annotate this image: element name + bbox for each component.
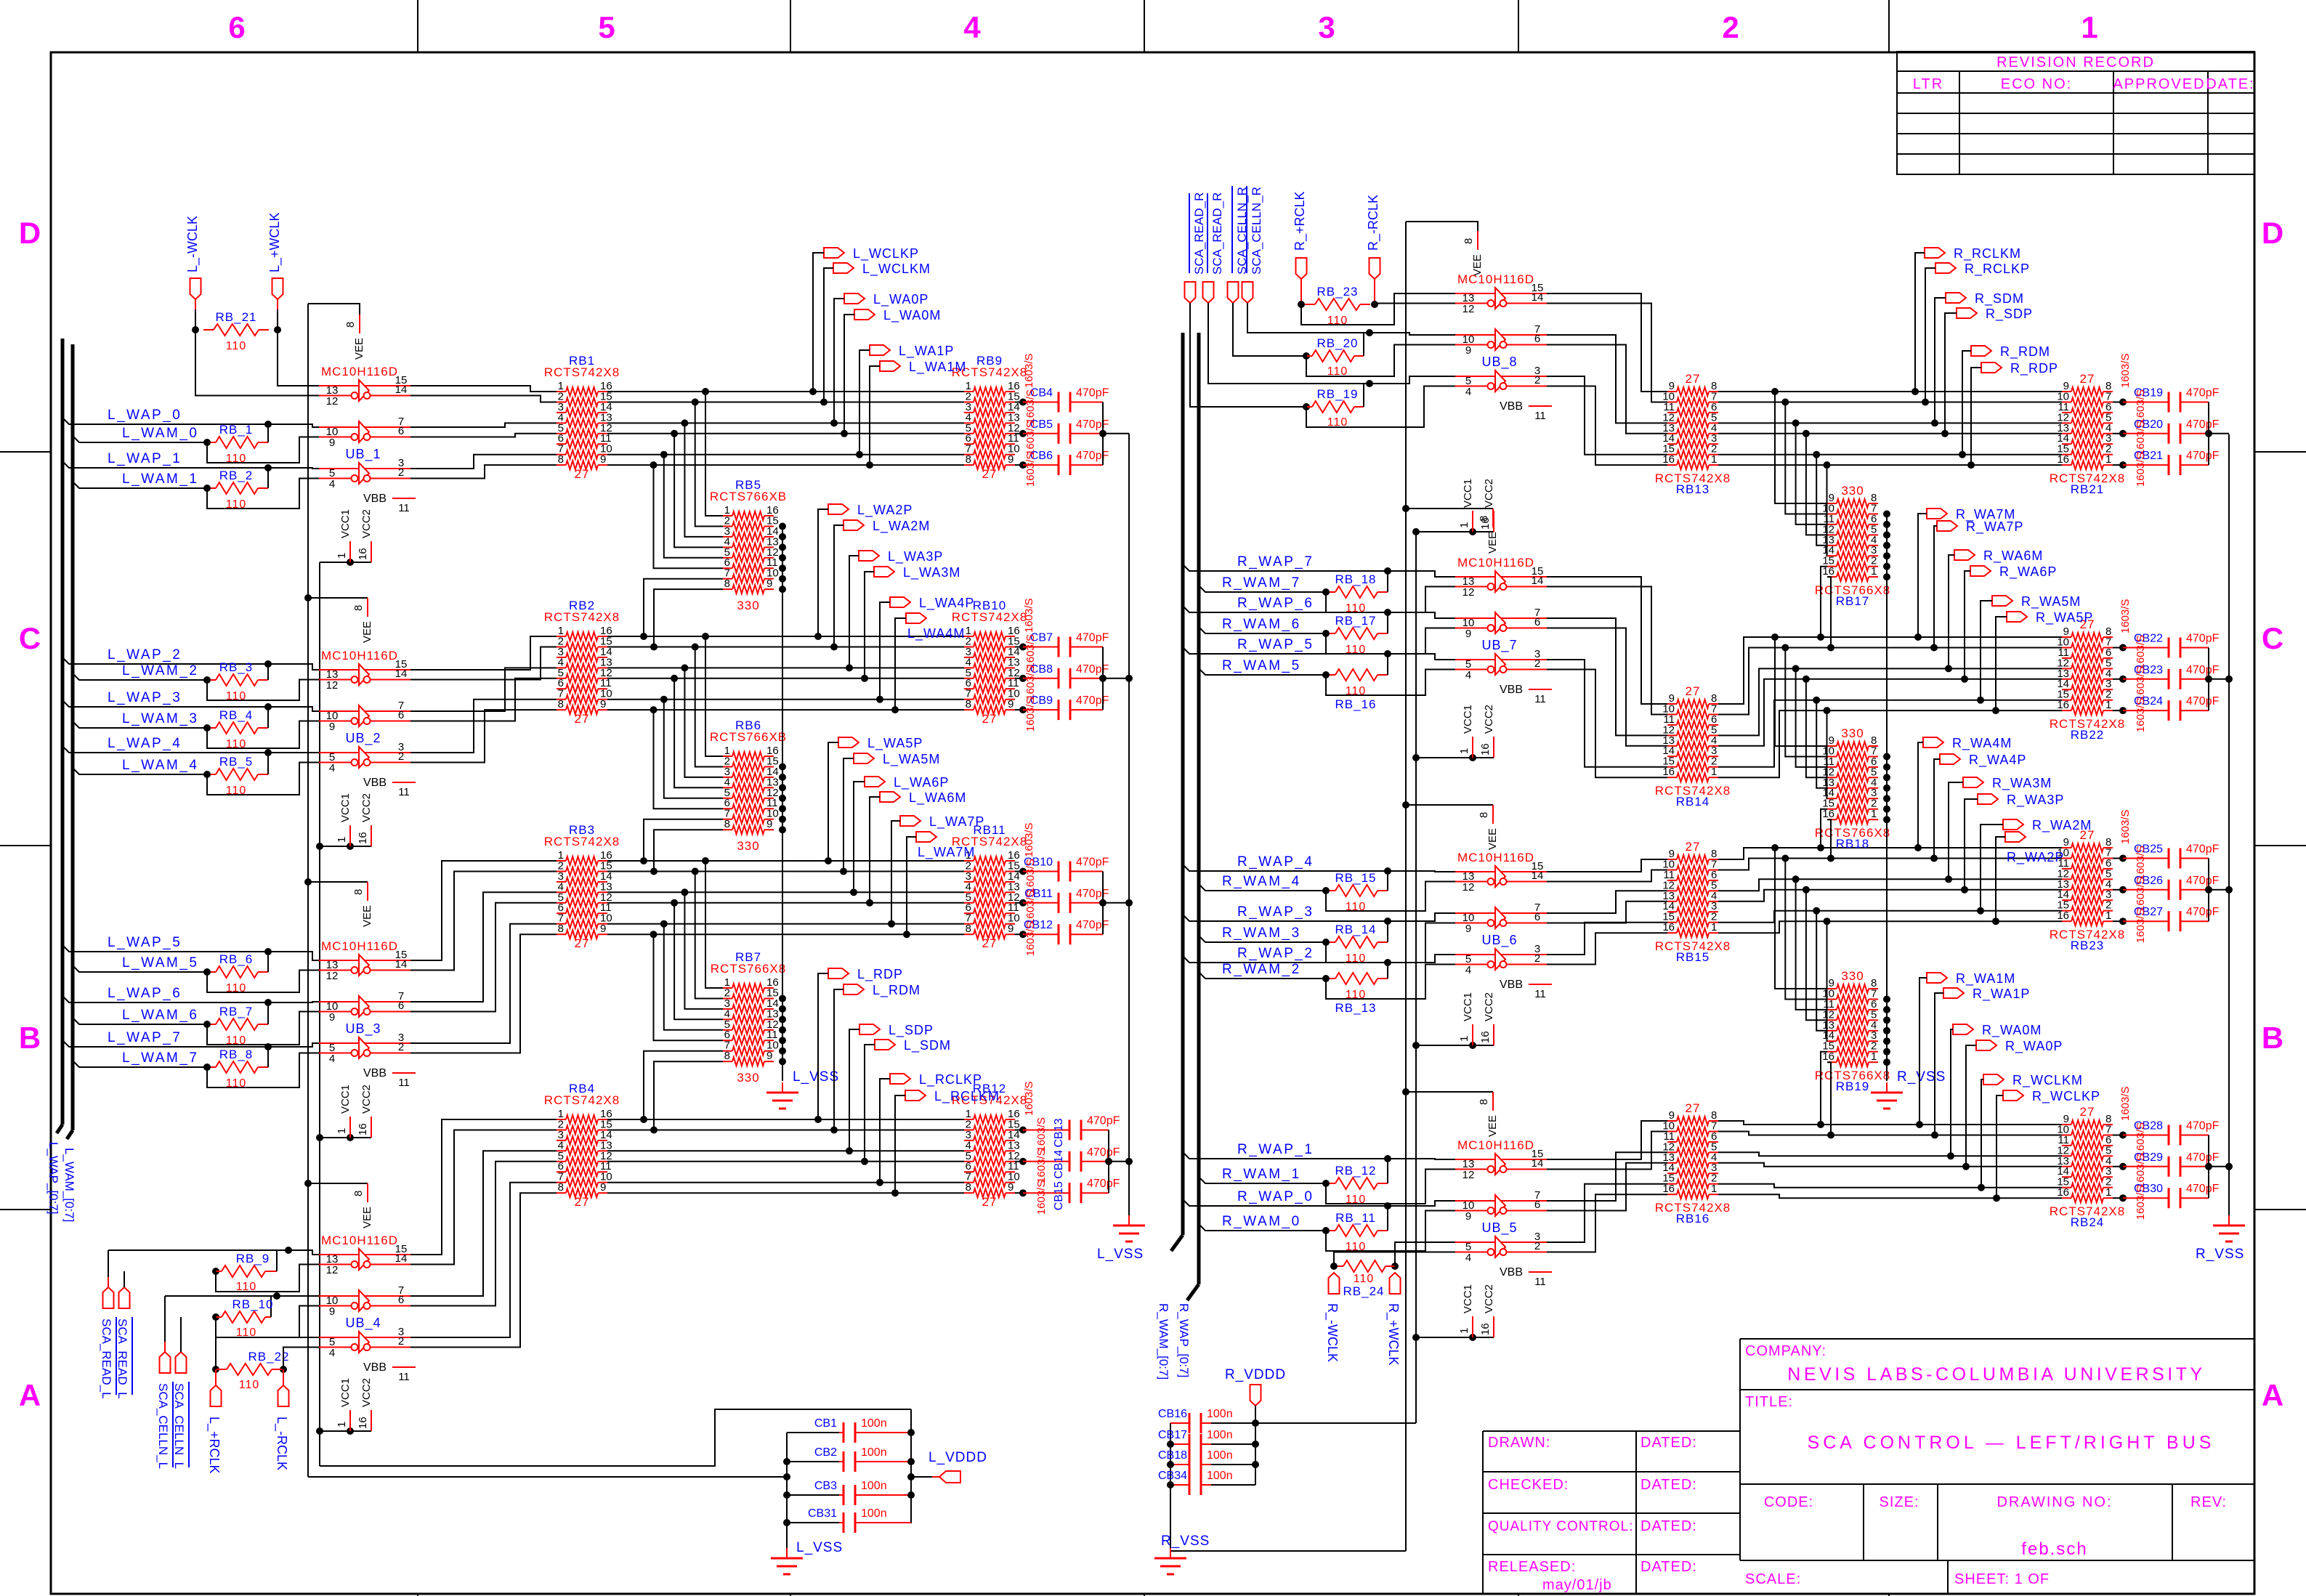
svg-text:VCC1: VCC1 xyxy=(339,793,352,822)
svg-text:14: 14 xyxy=(1532,870,1544,882)
cap group collector group 1 xyxy=(1102,402,1104,466)
capacitor CB13 470pF xyxy=(1015,1130,1023,1131)
wire bundle row 4 group R4 xyxy=(1718,1152,2062,1156)
svg-text:NEVIS LABS-COLUMBIA UNIVERSITY: NEVIS LABS-COLUMBIA UNIVERSITY xyxy=(1787,1364,2205,1385)
svg-text:R_-WCLK: R_-WCLK xyxy=(1324,1303,1340,1362)
svg-text:6: 6 xyxy=(1534,911,1540,923)
wire bundle row 7 group 3 xyxy=(607,923,964,925)
svg-text:R_WAM_3: R_WAM_3 xyxy=(1222,925,1301,941)
svg-text:C: C xyxy=(2262,621,2283,655)
svg-text:9: 9 xyxy=(329,1011,335,1024)
buffer gate UB_7.A xyxy=(1455,576,1547,578)
VEE pin 8 of UB_8 xyxy=(1406,222,1478,231)
wire L_+WCLK to UB_1 pin 13 xyxy=(278,330,319,386)
svg-text:1: 1 xyxy=(1458,522,1470,528)
svg-text:470pF: 470pF xyxy=(2186,1183,2220,1195)
svg-text:VCC1: VCC1 xyxy=(1462,479,1474,508)
svg-text:UB_6: UB_6 xyxy=(1481,933,1517,948)
svg-text:L_WAP_1: L_WAP_1 xyxy=(108,451,182,466)
svg-text:VCC2: VCC2 xyxy=(1483,992,1495,1021)
svg-text:470pF: 470pF xyxy=(1087,1146,1120,1159)
wire 330 networks common rail xyxy=(782,526,783,1081)
resistor network RB6 RCTS766X8 330 xyxy=(723,756,732,757)
svg-text:12: 12 xyxy=(326,679,339,692)
capacitor CB26 470pF xyxy=(2113,889,2123,891)
svg-text:L_WA0P: L_WA0P xyxy=(873,292,929,307)
connector SCA_READ_R b xyxy=(1203,282,1214,303)
svg-text:QUALITY CONTROL:: QUALITY CONTROL: xyxy=(1488,1519,1633,1534)
capacitor CB22 470pF xyxy=(2113,647,2123,649)
VEE pin 8 of UB_5 xyxy=(1402,1088,1409,1095)
resistor network RB4 RCTS742X8 27 xyxy=(557,1119,566,1120)
svg-text:8: 8 xyxy=(352,1191,365,1196)
svg-text:R_WA3M: R_WA3M xyxy=(1992,776,2052,791)
svg-text:470pF: 470pF xyxy=(2186,695,2220,708)
connector SCA_CELLN_L a xyxy=(160,1352,171,1373)
svg-text:A: A xyxy=(2262,1378,2283,1412)
wire RB6 pin 1 to upper bundle xyxy=(705,636,723,756)
wire RB6 pin 4 to upper bundle xyxy=(674,678,723,788)
capacitor CB29 470pF xyxy=(2113,1166,2123,1167)
svg-text:VEE: VEE xyxy=(1486,1115,1499,1137)
svg-text:1: 1 xyxy=(1711,453,1717,466)
svg-text:R_+RCLK: R_+RCLK xyxy=(1292,191,1308,251)
svg-text:R_WA0P: R_WA0P xyxy=(2005,1039,2063,1054)
VCC pins of UB_3 xyxy=(316,1134,323,1141)
cap group collector group R4 xyxy=(2208,1135,2209,1199)
svg-text:R_SDM: R_SDM xyxy=(1975,291,2024,307)
bus R thick lines xyxy=(1181,333,1185,1235)
wire RB17 pin 14 to upper bundle xyxy=(1826,465,1829,556)
svg-text:R_VDDD: R_VDDD xyxy=(1225,1367,1286,1382)
wire R_WAM_0 detour to gate pin xyxy=(1326,1211,1455,1252)
wire R_WAM_3 detour to gate pin xyxy=(1326,923,1455,963)
svg-text:RB15: RB15 xyxy=(1676,950,1710,964)
wire bundle row 2 group R4 xyxy=(1718,1132,2062,1135)
capacitor CB11 470pF xyxy=(1015,902,1023,904)
wire net L_WAM_2 xyxy=(73,673,207,680)
flag connector L_WA1P xyxy=(870,345,890,355)
svg-text:D: D xyxy=(19,216,41,250)
svg-text:4: 4 xyxy=(329,1053,335,1065)
svg-text:6: 6 xyxy=(398,1294,404,1306)
wire bundle row 7 group R2 xyxy=(1718,700,2062,767)
bus L_WAP/L_WAM thick lines xyxy=(61,339,65,1125)
capacitor CB7 470pF xyxy=(1015,647,1023,648)
wire bundle row 4 group 4 xyxy=(607,1150,964,1151)
capacitor CB21 470pF xyxy=(2113,464,2123,466)
rail VEE left column xyxy=(307,304,309,1477)
svg-text:R_WAM_0: R_WAM_0 xyxy=(1222,1214,1301,1229)
border zone ticks bottom xyxy=(417,1594,418,1596)
svg-text:8: 8 xyxy=(1463,238,1475,244)
svg-text:CODE:: CODE: xyxy=(1764,1494,1813,1510)
VCC pins of UB_6 xyxy=(1412,1042,1420,1049)
svg-text:RCTS742X8: RCTS742X8 xyxy=(544,1093,620,1107)
svg-text:470pF: 470pF xyxy=(1076,919,1109,931)
terminal L_VDDD xyxy=(911,1476,932,1478)
svg-text:16: 16 xyxy=(2057,910,2069,922)
VCC pins of UB_2 xyxy=(316,843,323,850)
svg-text:L_RDM: L_RDM xyxy=(873,983,921,998)
svg-text:R_WAP_2: R_WAP_2 xyxy=(1237,946,1314,961)
svg-text:1603/S: 1603/S xyxy=(2135,1186,2147,1220)
wire bundle row 5 group 4 xyxy=(607,1161,964,1162)
capacitor CB2 100n xyxy=(787,1461,839,1462)
svg-text:RCTS742X8: RCTS742X8 xyxy=(544,835,620,848)
svg-text:RB22: RB22 xyxy=(2071,728,2105,742)
flag connector L_SDM xyxy=(875,1040,895,1050)
svg-text:CB14: CB14 xyxy=(1053,1150,1065,1179)
svg-text:VBB: VBB xyxy=(1500,1266,1523,1279)
ground L_VSS at collector xyxy=(1128,1215,1130,1226)
svg-text:11: 11 xyxy=(398,786,410,798)
svg-text:12: 12 xyxy=(1463,881,1475,894)
svg-text:470pF: 470pF xyxy=(2186,843,2220,856)
svg-text:A: A xyxy=(19,1378,41,1412)
svg-text:2: 2 xyxy=(1534,1240,1540,1252)
svg-text:R_WA2M: R_WA2M xyxy=(2032,818,2092,833)
wire L_-WCLK to UB_1 pin 12 xyxy=(195,330,319,396)
flag connector L_WA4M xyxy=(906,613,926,623)
connector R_+WCLK xyxy=(1390,1273,1401,1294)
svg-text:1: 1 xyxy=(2105,699,2111,711)
svg-text:B: B xyxy=(19,1021,41,1055)
svg-text:DATED:: DATED: xyxy=(1641,1477,1697,1493)
wire RB17 pin 13 to upper bundle xyxy=(1816,455,1827,546)
resistor network RB22 RCTS742X8 27 xyxy=(2062,636,2071,638)
svg-text:1: 1 xyxy=(1458,1036,1470,1042)
svg-text:R_WA7P: R_WA7P xyxy=(1966,519,2023,535)
svg-text:L_WAM_3: L_WAM_3 xyxy=(122,711,199,726)
resistor network RB2 RCTS742X8 27 xyxy=(557,636,566,637)
svg-text:470pF: 470pF xyxy=(1076,694,1109,707)
wire SCA_READ_R b to UB_8 pin 5 xyxy=(1208,303,1455,384)
svg-text:COMPANY:: COMPANY: xyxy=(1745,1343,1826,1359)
svg-text:4: 4 xyxy=(1465,1252,1471,1264)
svg-text:R_WA4P: R_WA4P xyxy=(1969,753,2026,768)
svg-text:L_WA5P: L_WA5P xyxy=(867,736,923,751)
svg-text:VCC2: VCC2 xyxy=(360,509,373,538)
resistor RB_4 110 termination xyxy=(203,724,211,732)
wire RB6 pin 7 to lower bundle xyxy=(644,819,723,861)
svg-text:ECO NO:: ECO NO: xyxy=(2001,76,2072,92)
svg-text:SCA_READ_L: SCA_READ_L xyxy=(116,1318,129,1399)
svg-text:11: 11 xyxy=(398,1371,410,1383)
flag connector R_RDM xyxy=(1971,346,1991,356)
svg-text:MC10H116D: MC10H116D xyxy=(1457,272,1534,286)
svg-text:SCALE:: SCALE: xyxy=(1745,1571,1801,1587)
svg-text:100n: 100n xyxy=(1207,1470,1233,1482)
svg-text:SCA_CELLN_L: SCA_CELLN_L xyxy=(172,1383,186,1469)
connector SCA_READ_L a xyxy=(103,1287,114,1308)
svg-text:UB_2: UB_2 xyxy=(345,731,381,746)
svg-text:6: 6 xyxy=(398,425,404,437)
svg-text:470pF: 470pF xyxy=(1076,387,1109,400)
wire bundle row 7 group 1 xyxy=(607,454,964,455)
flag connector R_WA0P xyxy=(1976,1040,1996,1050)
svg-text:110: 110 xyxy=(226,340,247,352)
capacitor CB12 470pF xyxy=(1015,933,1023,935)
svg-text:CB3: CB3 xyxy=(814,1480,837,1492)
svg-text:16: 16 xyxy=(1479,1031,1492,1043)
svg-text:27: 27 xyxy=(575,1195,590,1209)
svg-text:6: 6 xyxy=(398,709,404,721)
wire R_+RCLK to UB_8 pin 13 xyxy=(1301,293,1455,325)
wire bundle row 4 group R2 xyxy=(1718,668,2062,735)
svg-text:1603/S: 1603/S xyxy=(2119,1086,2132,1121)
wire RB5 pin 3 to upper bundle xyxy=(684,423,723,537)
wire RB6 pin 5 to upper bundle xyxy=(664,700,723,798)
connector R_-WCLK xyxy=(1329,1273,1340,1294)
wire net L_WAP_4 xyxy=(62,746,305,753)
svg-text:VCC2: VCC2 xyxy=(360,793,373,822)
flag connector R_WA6P xyxy=(1970,566,1991,576)
svg-text:MC10H116D: MC10H116D xyxy=(1457,851,1534,864)
svg-text:8: 8 xyxy=(1478,516,1490,522)
capacitor CB14 470pF xyxy=(1015,1161,1023,1162)
connector L_+WCLK xyxy=(272,278,283,299)
wire bundle row 2 group R1 xyxy=(1718,402,2062,403)
svg-text:4: 4 xyxy=(329,478,335,490)
svg-text:R_WA0M: R_WA0M xyxy=(1982,1023,2042,1038)
svg-text:D: D xyxy=(2262,216,2283,250)
svg-text:100n: 100n xyxy=(1207,1408,1233,1420)
svg-text:SCA_CELLN_L: SCA_CELLN_L xyxy=(156,1383,170,1469)
svg-text:RB_5: RB_5 xyxy=(219,755,254,769)
VEE pin 8 of UB_6 xyxy=(1402,801,1409,809)
wire bundle row 4 group 3 xyxy=(607,891,964,893)
wire bundle row 5 group R1 xyxy=(1718,433,2062,434)
svg-text:UB_7: UB_7 xyxy=(1481,638,1517,653)
capacitor CB31 100n xyxy=(787,1522,839,1523)
svg-text:CB1: CB1 xyxy=(814,1417,837,1430)
wire R_WAP_6 jog to gate xyxy=(1388,612,1455,618)
svg-text:L_RDP: L_RDP xyxy=(857,967,903,982)
svg-text:4: 4 xyxy=(329,1347,335,1359)
svg-text:11: 11 xyxy=(1534,693,1546,705)
svg-text:9: 9 xyxy=(766,818,772,830)
wire RB19 pin 11 to upper bundle xyxy=(1796,879,1827,1010)
svg-text:9: 9 xyxy=(1465,344,1471,357)
svg-text:2: 2 xyxy=(1534,374,1540,386)
svg-text:RCTS766X8: RCTS766X8 xyxy=(711,962,786,976)
svg-text:9: 9 xyxy=(329,721,335,733)
ground L_VSS cap bank xyxy=(786,1548,788,1558)
wire bundle row 1 group 4 xyxy=(607,1119,964,1120)
svg-text:16: 16 xyxy=(357,548,369,560)
svg-text:1603/S: 1603/S xyxy=(1023,822,1035,857)
wire R_WAP_4 jog to gate xyxy=(1388,871,1455,872)
wire RB19 pin 9 to upper bundle xyxy=(1775,848,1827,989)
svg-text:1603/S: 1603/S xyxy=(1023,598,1035,633)
svg-text:1: 1 xyxy=(1711,1183,1717,1195)
svg-text:CB18: CB18 xyxy=(1158,1449,1187,1462)
VEE pin 8 of UB_4 xyxy=(304,1180,312,1187)
svg-text:9: 9 xyxy=(1465,1210,1471,1223)
svg-text:REV:: REV: xyxy=(2190,1494,2227,1510)
svg-text:4: 4 xyxy=(329,762,335,774)
flag connector L_SDP xyxy=(859,1024,880,1034)
buffer gate UB_8.A xyxy=(1455,293,1547,294)
svg-text:1603/S: 1603/S xyxy=(1024,453,1037,487)
svg-text:470pF: 470pF xyxy=(2186,1151,2220,1164)
wire bundle row 2 group 3 xyxy=(607,871,964,872)
svg-text:VCC2: VCC2 xyxy=(1483,705,1495,734)
wire bundle row 5 group R3 xyxy=(1718,890,2062,902)
wire RB18 pin 12 to upper bundle xyxy=(1806,679,1827,778)
svg-text:L_WCLKP: L_WCLKP xyxy=(853,246,919,262)
svg-text:VCC1: VCC1 xyxy=(1462,1284,1474,1313)
wire bundle row 5 group R2 xyxy=(1718,679,2062,746)
svg-text:L_WA7M: L_WA7M xyxy=(918,845,975,860)
svg-text:1: 1 xyxy=(336,1128,348,1134)
flag connector R_WA0M xyxy=(1953,1024,1973,1034)
revision record table xyxy=(1897,52,2254,174)
flag connector L_WA2M xyxy=(843,520,864,530)
svg-text:UB_4: UB_4 xyxy=(345,1316,381,1331)
svg-text:16: 16 xyxy=(1662,1183,1675,1195)
wire net R_WAM_1 xyxy=(1199,1177,1334,1183)
flag connector L_WA7M xyxy=(916,832,936,842)
svg-text:470pF: 470pF xyxy=(2186,1120,2220,1133)
resistor network RB7 RCTS766X8 330 xyxy=(723,987,732,989)
svg-text:L_VSS: L_VSS xyxy=(1097,1247,1144,1262)
resistor RB_8 110 termination xyxy=(203,1064,211,1071)
svg-text:8: 8 xyxy=(724,818,730,830)
svg-text:1603/S: 1603/S xyxy=(2119,353,2132,388)
svg-text:27: 27 xyxy=(575,936,590,950)
svg-text:R_WAP_7: R_WAP_7 xyxy=(1237,554,1314,570)
wire net R_WAP_2 xyxy=(1183,956,1396,963)
svg-text:100n: 100n xyxy=(1207,1429,1233,1441)
svg-text:RB_18: RB_18 xyxy=(1335,572,1377,586)
svg-text:3: 3 xyxy=(1318,10,1335,44)
svg-text:R_RDM: R_RDM xyxy=(2000,344,2050,360)
wire RB17 pin 10 to upper bundle xyxy=(1785,402,1827,514)
wire net L_WAM_7 xyxy=(73,1061,207,1067)
wire L_+RCLK to UB_4 pin 5 xyxy=(216,1337,319,1369)
svg-text:R_WA5P: R_WA5P xyxy=(2036,610,2093,625)
resistor RB_14 110 termination xyxy=(1322,939,1330,946)
wire RB17 pin 15 to lower bundle xyxy=(1821,567,1827,637)
svg-text:LTR: LTR xyxy=(1913,76,1943,92)
svg-text:RB23: RB23 xyxy=(2071,939,2105,952)
border zone ticks top xyxy=(417,0,418,52)
svg-text:9: 9 xyxy=(600,923,606,935)
svg-text:VCC1: VCC1 xyxy=(339,509,352,538)
wire net L_WAM_3 xyxy=(73,721,207,728)
wire net L_WAM_0 xyxy=(73,436,207,442)
svg-text:VCC2: VCC2 xyxy=(1483,1284,1495,1313)
svg-text:MC10H116D: MC10H116D xyxy=(1457,556,1534,570)
svg-text:L_WAM_4: L_WAM_4 xyxy=(122,758,199,773)
svg-text:R_WAP_5: R_WAP_5 xyxy=(1237,637,1314,652)
wire RB7 pin 5 to upper bundle xyxy=(664,924,723,1030)
wire bundle row 5 group R4 xyxy=(1718,1163,2062,1167)
svg-text:14: 14 xyxy=(395,668,408,680)
svg-text:L_WAM_2: L_WAM_2 xyxy=(122,663,199,678)
wire L_WAM_6 detour to gate pin xyxy=(207,1012,319,1045)
svg-text:L_SDP: L_SDP xyxy=(889,1023,934,1038)
wire R_WAM_7 detour to gate pin xyxy=(1326,587,1455,613)
wire bundle row 2 group 4 xyxy=(607,1130,964,1131)
buffer gate UB_1.A xyxy=(319,385,410,386)
wire RB17 pin 12 to upper bundle xyxy=(1806,434,1827,535)
wire bundle row 1 group R4 xyxy=(1718,1121,2062,1125)
svg-text:330: 330 xyxy=(1841,726,1864,740)
flag connector L_WCLKM xyxy=(833,263,854,273)
svg-text:1603/S: 1603/S xyxy=(1035,1180,1048,1215)
flag connector L_WA5P xyxy=(838,737,859,748)
buffer gate UB_8.B xyxy=(1455,334,1547,336)
svg-text:100n: 100n xyxy=(861,1480,887,1492)
wire R_WAP_3 jog to gate xyxy=(1388,913,1455,921)
wire bundle row 1 group R1 xyxy=(1718,391,2062,392)
wire bundle row 8 group 2 xyxy=(607,709,964,710)
wire L_WAM_4 detour to gate pin xyxy=(207,763,319,795)
buffer gate UB_7.C xyxy=(1455,659,1547,660)
resistor RB_24 110 xyxy=(1330,1263,1338,1270)
wire RB5 pin 6 to upper bundle xyxy=(654,465,724,568)
flag connector R_WA2P xyxy=(2005,832,2026,842)
svg-text:R_VSS: R_VSS xyxy=(1897,1069,1946,1085)
svg-text:470pF: 470pF xyxy=(1076,888,1109,900)
svg-text:27: 27 xyxy=(1686,684,1701,698)
svg-text:VEE: VEE xyxy=(1486,828,1499,850)
flag connector L_WA6P xyxy=(865,777,885,787)
VCC pins of UB_7 xyxy=(1412,754,1420,761)
wire SCA_READ_L to UB_4 pin 13 xyxy=(108,1249,288,1251)
capacitor CB15 470pF xyxy=(1015,1192,1023,1194)
svg-text:9: 9 xyxy=(1008,698,1014,710)
resistor RB_2 110 termination xyxy=(203,485,211,492)
svg-text:9: 9 xyxy=(1008,1181,1014,1194)
svg-text:2: 2 xyxy=(398,1335,404,1348)
resistor RB_5 110 termination xyxy=(203,771,211,778)
wire SCA_READ_L b detour to UB_4 pin 12 xyxy=(216,1265,319,1292)
wire net L_WAP_2 xyxy=(62,657,305,664)
svg-text:RB_23: RB_23 xyxy=(1317,285,1359,299)
svg-text:CB34: CB34 xyxy=(1158,1470,1187,1482)
svg-text:11: 11 xyxy=(1534,1276,1546,1288)
buffer gate UB_3.C xyxy=(319,1042,410,1044)
svg-text:SHEET: 1 OF: SHEET: 1 OF xyxy=(1954,1571,2050,1587)
svg-text:1603/S: 1603/S xyxy=(2135,909,2147,944)
svg-text:27: 27 xyxy=(575,467,590,481)
svg-text:RB21: RB21 xyxy=(2071,482,2105,496)
wire net R_WAM_7 xyxy=(1199,586,1334,592)
svg-text:100n: 100n xyxy=(861,1417,887,1430)
svg-text:8: 8 xyxy=(724,1050,730,1062)
svg-text:R_WAP_6: R_WAP_6 xyxy=(1237,596,1314,611)
svg-text:R_+WCLK: R_+WCLK xyxy=(1385,1303,1401,1366)
capacitor CB16 100n xyxy=(1211,1422,1255,1424)
wire bundle row 2 group R2 xyxy=(1718,648,2062,715)
capacitor CB20 470pF xyxy=(2113,433,2123,434)
wire R_WAM_6 detour to gate pin xyxy=(1326,628,1455,655)
rail VCC left column xyxy=(319,562,320,1466)
svg-text:8: 8 xyxy=(558,698,564,710)
svg-text:8: 8 xyxy=(966,1181,971,1194)
svg-text:6: 6 xyxy=(398,1000,404,1012)
svg-text:R_WAM_7: R_WAM_7 xyxy=(1222,575,1301,591)
svg-text:R_WAP_1: R_WAP_1 xyxy=(1237,1142,1314,1157)
svg-text:470pF: 470pF xyxy=(2186,664,2220,676)
resistor network RB1 RCTS742X8 27 xyxy=(557,391,566,392)
title block frame xyxy=(1483,1339,2254,1594)
svg-text:L_WA3M: L_WA3M xyxy=(903,565,960,580)
